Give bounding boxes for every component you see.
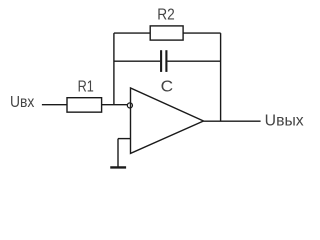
svg-text:Uвх: Uвх: [10, 94, 35, 111]
wire right feedback vertical down to output: [220, 33, 222, 121]
resistor R2: [150, 26, 183, 40]
svg-text:R2: R2: [157, 6, 175, 23]
wire non-inverting input: [118, 138, 131, 140]
wire output: [204, 120, 261, 122]
node: junction vertical wire up to feedback network: [113, 33, 115, 105]
node: inverting input circle: [127, 103, 132, 108]
wire R2 to right feedback vertical: [183, 32, 221, 34]
ground: [110, 166, 126, 168]
wire R1 to inverting node: [102, 104, 128, 106]
wire capacitor branch right: [167, 60, 220, 62]
wire down to ground: [117, 139, 119, 167]
resistor R1: [67, 98, 102, 112]
capacitor C: [161, 50, 166, 72]
svg-text:Uвых: Uвых: [265, 112, 304, 129]
wire top feedback to R2: [114, 32, 150, 34]
wire capacitor branch left: [114, 60, 160, 62]
svg-text:R1: R1: [78, 78, 94, 95]
svg-text:C: C: [161, 79, 174, 96]
wire input to R1: [42, 104, 67, 106]
op-amp U1 triangle: [131, 88, 204, 153]
